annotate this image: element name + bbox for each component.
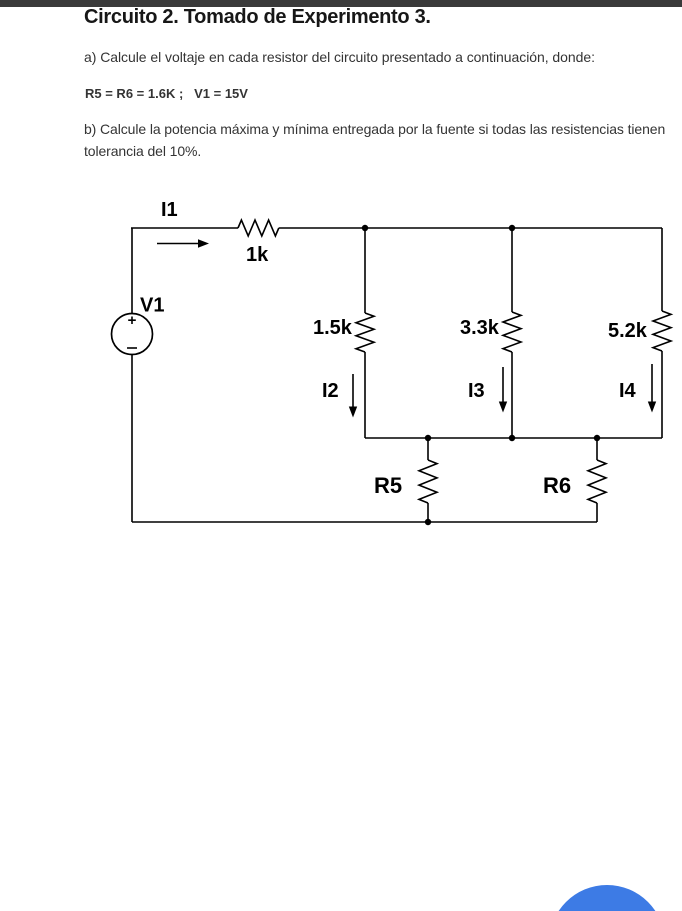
svg-text:5.2k: 5.2k (608, 320, 648, 342)
wire top 1k-to-right corner (279, 227, 662, 229)
wire branch2 upper (511, 228, 513, 312)
node top-branch2 (509, 225, 515, 231)
node bottom-R5 (425, 519, 431, 525)
wire branch1 upper (364, 228, 366, 313)
V1 minus sign (127, 347, 137, 349)
svg-text:I4: I4 (619, 380, 637, 402)
resistor R6 zigzag (588, 460, 606, 503)
wire bottom (132, 521, 597, 523)
wire left vertical lower (131, 355, 133, 523)
paragraph a (84, 49, 595, 65)
wire branch1 lower (364, 352, 366, 438)
paragraph b line 2 (84, 143, 201, 159)
wire top left-to-1k (131, 227, 238, 229)
svg-text:3.3k: 3.3k (460, 317, 500, 339)
wire middle bus (365, 437, 662, 439)
wire left vertical upper (131, 228, 133, 314)
node bus-R5 (425, 435, 431, 441)
resistor R5 zigzag (419, 460, 437, 503)
title (84, 6, 431, 29)
current arrow I3 (499, 367, 507, 413)
node top-branch1 (362, 225, 368, 231)
svg-text:I2: I2 (322, 380, 339, 402)
circuit schematic (0, 190, 682, 540)
svg-text:V1: V1 (140, 295, 164, 317)
resistor 5.2k zigzag (653, 311, 671, 351)
wire R6 upper stub (596, 438, 598, 460)
wire branch3 lower (661, 351, 663, 438)
node bus-R6 (594, 435, 600, 441)
blue circle bottom right (549, 885, 665, 911)
svg-text:R6: R6 (543, 473, 571, 498)
V1 plus sign (128, 317, 136, 325)
wire R6 lower stub (596, 503, 598, 522)
svg-text:1.5k: 1.5k (313, 317, 353, 339)
resistor 1k zigzag (238, 220, 279, 236)
values line (85, 86, 248, 101)
current arrow I1 (157, 239, 209, 248)
current arrow I2 (349, 374, 357, 418)
wire branch3 upper (661, 228, 663, 311)
paragraph b line 1 (84, 121, 665, 137)
resistor 1.5k zigzag (356, 313, 374, 352)
wire R5 lower stub (427, 503, 429, 522)
wire R5 upper stub (427, 438, 429, 460)
current arrow I4 (648, 364, 656, 413)
wire branch2 lower (511, 352, 513, 438)
svg-text:R5: R5 (374, 473, 402, 498)
svg-text:I1: I1 (161, 199, 178, 221)
top dark bar (0, 0, 682, 7)
svg-text:1k: 1k (246, 244, 269, 266)
voltage source V1 circle (112, 314, 153, 355)
resistor 3.3k zigzag (503, 312, 521, 352)
svg-text:I3: I3 (468, 380, 485, 402)
node bus-branch2 (509, 435, 515, 441)
